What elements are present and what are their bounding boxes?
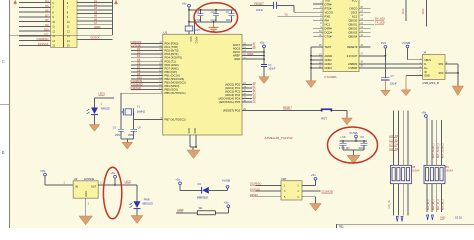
svg-text:+5v: +5v [110, 171, 115, 175]
svg-text:RTS#: RTS# [325, 6, 332, 10]
svg-text:CTS#: CTS# [325, 34, 332, 38]
pin 12 wires [19, 30, 51, 32]
wire C6 to DTR [277, 4, 294, 6]
sheet border strip [0, 0, 10, 228]
node +5 rail vertical [263, 48, 265, 65]
svg-text:100nF: 100nF [256, 9, 264, 12]
svg-text:VCCIO: VCCIO [325, 10, 334, 14]
svg-text:CBUS2: CBUS2 [348, 26, 357, 30]
svg-text:USBDM: USBDM [348, 62, 357, 66]
wire A1 [77, 1, 112, 3]
op: MCU U1 ATMEGA8 body [163, 34, 242, 135]
svg-text:ADC6: ADC6 [233, 46, 241, 50]
regulator U3 LM2940 body [73, 181, 98, 198]
capacitor CX1 15PF [118, 128, 124, 130]
svg-text:15PF: 15PF [115, 134, 121, 137]
svg-text:1K00: 1K00 [402, 8, 405, 14]
power 3V3 [384, 45, 387, 48]
wire RN2 top [436, 120, 438, 165]
svg-text:LM2940: LM2940 [84, 177, 95, 181]
pin 7 wires [19, 6, 51, 8]
svg-text:D8: D8 [137, 68, 141, 72]
wire AVCC pin [194, 22, 196, 35]
svg-text:PWR: PWR [144, 198, 150, 201]
ground (C1) [259, 77, 270, 84]
svg-text:D10: D10 [137, 76, 142, 80]
svg-text:VIN: VIN [40, 169, 45, 173]
wire C7 to ground [384, 80, 386, 90]
wire VCC vertical [188, 7, 190, 26]
resistor network R9 1K0X4 [424, 165, 445, 183]
diode D1 MBR0520 [201, 187, 203, 194]
capacitor C6 100nF (series) [273, 2, 275, 9]
svg-text:VCC: VCC [189, 37, 193, 43]
wire ADC7 to A7 [242, 44, 252, 46]
svg-text:AVCC: AVCC [233, 50, 240, 54]
svg-text:DSR#: DSR# [325, 26, 333, 30]
svg-text:100nF: 100nF [390, 82, 398, 85]
ground (VUSB caps) [347, 155, 360, 164]
connector P1 (left column, pins 6-15) [51, 0, 64, 47]
wire caps bottom bus [343, 149, 364, 151]
svg-text:D13/SCK: D13/SCK [131, 86, 142, 90]
wire A4 [77, 13, 112, 15]
power +5v (regulator out) [114, 175, 117, 178]
svg-text:PB5 (SCK): PB5 (SCK) [165, 88, 179, 92]
wire +5 stem [114, 178, 116, 185]
capacitor C3 4.7uF [215, 10, 217, 14]
capacitor C1 100nF [261, 64, 267, 66]
pin 11 wires [19, 25, 51, 27]
svg-text:VUSB: VUSB [222, 178, 230, 182]
pushbutton RST [321, 108, 332, 110]
svg-text:16MHZ: 16MHZ [137, 111, 146, 114]
svg-text:D5: D5 [45, 4, 49, 8]
wire U2 ground bus [310, 47, 312, 71]
svg-text:+5v: +5v [259, 41, 264, 45]
off-sheet arrow [427, 215, 429, 220]
LED LED2 (PWR) [134, 201, 141, 208]
svg-text:GND: GND [85, 191, 88, 197]
svg-text:D9: D9 [45, 23, 49, 27]
pin 15 wires [19, 44, 51, 46]
wire AREF [176, 212, 197, 214]
svg-text:1K00: 1K00 [422, 8, 425, 14]
USB-serial U2 FT232RL body [323, 0, 359, 72]
pin 8 wires [19, 11, 51, 13]
svg-text:(ADC0) PC0: (ADC0) PC0 [225, 82, 241, 86]
wire TX to RXD [278, 15, 324, 17]
capacitor C8 4.7uF 10V [342, 141, 344, 143]
wire A6 [77, 20, 112, 22]
wire W1 to +5 [215, 212, 228, 214]
connector P2 (right column, pins 6-15) [64, 0, 78, 47]
J5 pin 3 [256, 190, 282, 192]
wire cap top bus [189, 9, 236, 11]
svg-text:1K0X4: 1K0X4 [412, 170, 420, 173]
svg-text:USBDP: USBDP [348, 66, 357, 70]
svg-text:PB0 (ICP): PB0 (ICP) [165, 70, 177, 74]
svg-text:LCD_BL: LCD_BL [388, 199, 391, 209]
wire AREF [242, 55, 264, 57]
svg-text:D2: D2 [137, 47, 141, 51]
wire LED1 to ground [94, 115, 96, 124]
svg-text:PB6 (XL/TOSC1): PB6 (XL/TOSC1) [165, 91, 186, 95]
svg-text:AGND: AGND [325, 54, 333, 58]
wire RN2 pin1 to +5 [426, 117, 428, 165]
ground (crystal) [122, 142, 133, 149]
svg-text:+5v: +5v [224, 201, 229, 205]
svg-text:MBR0520: MBR0520 [197, 196, 209, 199]
svg-text:D8: D8 [45, 18, 49, 22]
svg-text:KEY_IN_1: KEY_IN_1 [433, 199, 435, 210]
svg-text:D4: D4 [137, 54, 141, 58]
svg-text:CBUS3: CBUS3 [348, 30, 357, 34]
wire RN2 bottom [441, 184, 443, 212]
header J5 ISP body [281, 181, 302, 200]
power arrow near header right [114, 1, 118, 4]
svg-text:W1: W1 [199, 206, 203, 210]
J5 pin 1 [256, 184, 282, 186]
wire RN1 top [402, 111, 404, 166]
wire RN2 bottom [426, 184, 428, 212]
wire A3 [77, 9, 112, 11]
ground (MCU) [187, 150, 200, 159]
regulator GND pin [85, 198, 87, 216]
pin 6 wires [19, 2, 51, 4]
off-sheet arrow [401, 217, 403, 222]
ground (U2) [306, 81, 317, 88]
power +5v (RN2) [425, 115, 428, 118]
svg-text:OSCI: OSCI [351, 10, 358, 14]
svg-text:AVCC: AVCC [195, 37, 199, 44]
connector TB1 (cropped at bottom) [337, 223, 474, 225]
wire OUT to +5 [98, 184, 137, 186]
svg-text:CBUS0: CBUS0 [348, 18, 357, 22]
wire USB GND [406, 75, 423, 77]
wire CBUS0 RX_LED [359, 19, 374, 21]
power +5v (VCC) [188, 4, 191, 7]
svg-text:3.3VOUT: 3.3VOUT [346, 54, 357, 58]
svg-text:D12/MISO: D12/MISO [131, 83, 143, 87]
capacitor C2 4.7uF [200, 10, 202, 14]
wire VUSB cap bus [355, 138, 357, 141]
svg-text:D+: D+ [424, 67, 428, 70]
svg-text:GND: GND [424, 75, 430, 78]
svg-text:SH2: SH2 [439, 72, 444, 75]
wire ADC6 to A6 [242, 47, 252, 49]
wire 3V3 rail [384, 48, 386, 77]
wire A7 [77, 24, 112, 26]
wire RN2 top [431, 120, 433, 165]
pin 14 wires [19, 40, 51, 42]
capacitor CX2 15PF [130, 128, 136, 130]
ground (decoupling bank) [213, 22, 215, 27]
svg-text:VUSB: VUSB [402, 41, 410, 45]
wire GND [242, 58, 264, 60]
capacitor C9 100nF [363, 141, 365, 143]
wire group outline horizontal [10, 34, 112, 36]
svg-text:LED1: LED1 [99, 92, 106, 96]
svg-text:RESET: RESET [283, 105, 292, 109]
ground (ISP) [310, 204, 322, 212]
svg-text:(RESET) PC6: (RESET) PC6 [223, 108, 241, 112]
svg-text:(ADC4/SDA) PC4: (ADC4/SDA) PC4 [218, 97, 240, 101]
wire D0/SCK [77, 38, 112, 40]
svg-text:B: B [2, 150, 5, 155]
svg-text:TB1: TB1 [339, 225, 345, 228]
svg-text:OSCO: OSCO [349, 6, 357, 10]
wire GND pins [189, 135, 191, 147]
ground (C7) [381, 90, 391, 96]
wire A5 [77, 16, 112, 18]
svg-text:KEY_SCAN_1: KEY_SCAN_1 [432, 142, 435, 158]
capacitor C4 100nF [231, 10, 233, 14]
svg-text:PD6 (AIN0): PD6 (AIN0) [165, 63, 179, 67]
svg-text:PD4 (XCK/T0): PD4 (XCK/T0) [165, 56, 183, 60]
svg-text:D9: D9 [137, 72, 141, 76]
power +5v (ISP) [314, 177, 317, 180]
wire RST to ground [332, 109, 347, 111]
svg-text:KEY_IN_0: KEY_IN_0 [428, 199, 430, 210]
svg-text:GND1: GND1 [325, 58, 333, 62]
ferrite/inductor L1 [185, 26, 193, 31]
svg-text:RST: RST [321, 117, 327, 121]
svg-text:D11/MOSI: D11/MOSI [131, 79, 143, 83]
svg-text:U1: U1 [164, 30, 168, 34]
svg-text:VCC: VCC [352, 0, 358, 2]
highlight ellipse (+5 output) [103, 167, 121, 219]
svg-text:ATMEGA8_TQFP32: ATMEGA8_TQFP32 [265, 136, 293, 140]
svg-text:GND3: GND3 [325, 66, 333, 70]
wire PB6/XTAL1 [121, 92, 163, 94]
svg-text:10uH: 10uH [194, 30, 200, 32]
svg-text:RXD: RXD [325, 14, 331, 18]
svg-text:3V3: 3V3 [381, 41, 387, 45]
svg-text:D-: D- [424, 63, 427, 66]
highlight ellipse (VUSB caps) [328, 127, 378, 163]
power +5v (D1) [179, 182, 182, 185]
svg-text:15PF: 15PF [128, 134, 134, 137]
wire VIN to regulator [44, 176, 46, 185]
svg-text:PD0 (RXD): PD0 (RXD) [165, 42, 179, 46]
LED LED1 [91, 108, 98, 115]
svg-text:PB7 (XL/TOSC2): PB7 (XL/TOSC2) [165, 118, 186, 122]
svg-text:+5v: +5v [311, 173, 316, 177]
svg-text:4.7uF: 4.7uF [195, 19, 202, 22]
svg-text:CBUS4: CBUS4 [348, 34, 357, 38]
wire ISP pin6 to ground [302, 196, 316, 198]
svg-text:+5v: +5v [182, 1, 187, 5]
wire RN1 top [393, 111, 395, 166]
wire RN1 bottom [393, 184, 395, 216]
off-sheet arrow [431, 215, 433, 220]
svg-text:VBUS: VBUS [424, 59, 431, 62]
wire LED1 net [95, 97, 115, 99]
svg-text:PB1 (OC1A): PB1 (OC1A) [165, 73, 180, 77]
highlight ellipse (decoupling caps) [194, 3, 238, 32]
wire RN2 bottom [436, 184, 438, 212]
svg-text:ID: ID [424, 71, 427, 74]
svg-text:GND: GND [234, 57, 240, 61]
wire PB7/XTAL2 [134, 119, 163, 121]
svg-text:VUSB: VUSB [349, 131, 357, 135]
svg-text:(ADC1) PC1: (ADC1) PC1 [225, 86, 241, 90]
svg-text:D1/TXD0: D1/TXD0 [131, 44, 142, 48]
svg-text:IN: IN [75, 185, 78, 189]
wire RESET to C6 [250, 4, 273, 6]
svg-text:AREF: AREF [233, 54, 241, 58]
svg-text:DCD#: DCD# [325, 30, 333, 34]
svg-text:KEY_IN_2: KEY_IN_2 [438, 199, 440, 210]
svg-text:PD7 (AIN1): PD7 (AIN1) [165, 66, 179, 70]
ground (USB GND) [401, 90, 411, 96]
svg-text:D6: D6 [137, 61, 141, 65]
power VIN [44, 173, 47, 176]
ground (LED2) [131, 216, 143, 224]
border tick [0, 104, 10, 106]
svg-text:D6: D6 [45, 9, 49, 13]
svg-text:TXD: TXD [325, 0, 330, 2]
svg-text:D13/SCK: D13/SCK [38, 42, 49, 46]
svg-text:NC1: NC1 [325, 22, 331, 26]
svg-text:+5v: +5v [421, 110, 426, 114]
wire AREF [77, 27, 112, 29]
svg-text:PB2 (SS/OC1B): PB2 (SS/OC1B) [165, 77, 185, 81]
svg-text:D5: D5 [137, 58, 141, 62]
wire RN2 bottom [431, 184, 433, 212]
svg-text:D2 D3: D2 D3 [455, 217, 462, 220]
J5 pin 5 [256, 196, 282, 198]
svg-text:D7: D7 [45, 13, 49, 17]
wire D1 to VUSB [209, 189, 228, 191]
ground (shield) [452, 86, 463, 96]
svg-text:1K0X4: 1K0X4 [446, 170, 454, 173]
svg-text:TEST: TEST [325, 45, 332, 49]
svg-text:GND: GND [194, 128, 197, 134]
wire caps to ground [120, 131, 122, 139]
resistor R4 1K00 (vertical, cropped) [425, 0, 427, 26]
power +5v (W1) [227, 205, 230, 208]
wire RN1 bottom [397, 184, 399, 216]
svg-text:SH1: SH1 [439, 63, 444, 66]
wire XTAL1 vertical [120, 93, 122, 129]
svg-text:100nF: 100nF [268, 68, 276, 71]
svg-text:D0/RXD0: D0/RXD0 [131, 40, 142, 44]
pin 10 wires [19, 21, 51, 23]
USB connector J4 USB_MINI_B body [423, 55, 445, 80]
pin 13 wires [19, 35, 51, 37]
svg-text:GND: GND [188, 128, 191, 134]
svg-text:AREF: AREF [177, 208, 184, 212]
svg-text:+ C8: + C8 [340, 136, 346, 139]
svg-text:KEY_IN_3: KEY_IN_3 [443, 199, 445, 210]
wire CBUS1 TX_LED [359, 23, 374, 25]
wire AVCC to +5 rail [242, 51, 264, 53]
wire ISP pin2 to +5 [302, 184, 316, 186]
svg-text:(ADC2) PC2: (ADC2) PC2 [225, 90, 241, 94]
svg-text:(ADC3) PC3: (ADC3) PC3 [225, 93, 241, 97]
capacitor C7 100nF [381, 77, 390, 79]
svg-text:PD2 (INT0): PD2 (INT0) [165, 49, 179, 53]
wire RESET net [242, 109, 321, 111]
svg-text:D3: D3 [137, 51, 141, 55]
wire A2 [77, 5, 112, 7]
wire shield SH1/SH2 [445, 63, 458, 65]
wire RN1 top [407, 111, 409, 166]
wire LED2 to ground [136, 209, 138, 216]
svg-text:+5v: +5v [175, 178, 180, 182]
wire +5 to D1 [179, 185, 181, 191]
svg-text:PD3 (INT1): PD3 (INT1) [165, 52, 179, 56]
ground (RST) [342, 118, 353, 125]
svg-text:D7: D7 [137, 65, 141, 69]
wire group outline vertical [111, 0, 113, 35]
svg-text:RI#: RI# [325, 18, 330, 22]
svg-text:KEY_SCAN_2: KEY_SCAN_2 [437, 142, 440, 158]
wire RN2 top [441, 120, 443, 165]
svg-text:RX_LED: RX_LED [375, 17, 385, 21]
svg-text:GND2: GND2 [325, 62, 333, 66]
power VUSB [406, 45, 409, 48]
power VUSB (D1) [226, 185, 229, 188]
crystal Y1 16MHZ [121, 111, 123, 113]
off-sheet arrow [396, 217, 398, 222]
svg-text:OUT: OUT [91, 185, 97, 189]
svg-text:D10: D10 [44, 28, 49, 32]
resistor W1 [197, 211, 215, 215]
svg-text:TX_LED: TX_LED [375, 21, 385, 25]
svg-text:RESET#: RESET# [347, 45, 358, 49]
wire RN1 top [397, 111, 399, 166]
wire to LED2 [136, 185, 138, 201]
svg-text:ISP: ISP [281, 177, 286, 181]
svg-text:PB3 (MOSI/OC2): PB3 (MOSI/OC2) [165, 81, 186, 85]
svg-text:NC2: NC2 [352, 14, 358, 18]
wire RN1 bottom [402, 184, 404, 216]
svg-text:ADC7: ADC7 [233, 43, 241, 47]
svg-text:DTR#: DTR# [325, 2, 333, 6]
wire cap bottom bus [189, 21, 232, 23]
svg-text:PD5 (T1): PD5 (T1) [165, 59, 176, 63]
svg-text:WRLED: WRLED [101, 108, 110, 111]
resistor network R8 1K0X4 [391, 165, 412, 183]
power arrow top-left [13, 1, 17, 4]
svg-text:CBUS1: CBUS1 [348, 22, 357, 26]
pin 9 wires [19, 16, 51, 18]
wire RN1 bottom [407, 184, 409, 216]
svg-text:USB_MINI_B: USB_MINI_B [422, 81, 439, 85]
svg-text:RESET: RESET [255, 1, 265, 5]
svg-text:D12/MISO: D12/MISO [37, 37, 49, 41]
wire XTAL2 vertical [133, 112, 135, 129]
power +5v (AVCC) [263, 45, 266, 48]
svg-text:PD1 (TXD): PD1 (TXD) [165, 45, 179, 49]
svg-text:U3: U3 [74, 177, 78, 181]
svg-text:100nF: 100nF [226, 19, 233, 22]
svg-text:C: C [2, 59, 5, 64]
wire VUSB to VBUS [407, 48, 409, 60]
wire LED1 vertical [94, 98, 96, 108]
ground (LED1) [89, 125, 100, 132]
svg-text:KEY_SCAN_3: KEY_SCAN_3 [442, 142, 445, 158]
resistor R3 1K00 (vertical, cropped) [405, 0, 407, 21]
svg-text:WEDLED: WEDLED [142, 202, 153, 205]
svg-text:LED2: LED2 [125, 179, 132, 183]
power VUSB (caps) [355, 135, 358, 138]
ground (U3) [79, 216, 93, 225]
wire ISP pin4 D11/MOSI [302, 190, 321, 192]
